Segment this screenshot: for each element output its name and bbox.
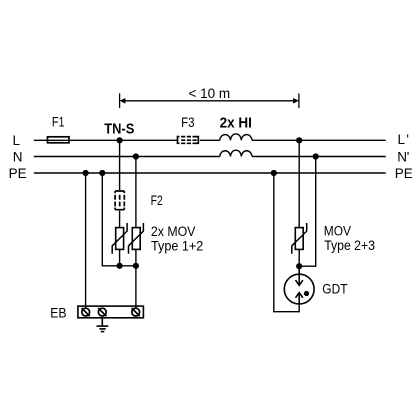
wire L bbox=[34, 139, 386, 141]
svg-text:GDT: GDT bbox=[322, 282, 347, 297]
svg-text:N': N' bbox=[397, 150, 409, 165]
svg-text:F2: F2 bbox=[151, 193, 163, 208]
ground symbol bbox=[97, 319, 109, 332]
svg-text:TN-S: TN-S bbox=[104, 120, 134, 137]
wire MOV1 bottom bbox=[119, 249, 121, 265]
varistor MOV3 (right) bbox=[292, 223, 307, 254]
varistor MOV2 bbox=[129, 223, 144, 254]
wire PE bbox=[34, 172, 386, 174]
wire N branch down bbox=[135, 157, 137, 228]
svg-text:F1: F1 bbox=[52, 115, 65, 130]
fuse F1 bbox=[48, 115, 70, 143]
node PE junction 3 bbox=[271, 170, 277, 176]
node PE junction 2 bbox=[99, 170, 105, 176]
svg-text:F3: F3 bbox=[181, 115, 194, 130]
node MOV2 bottom junction bbox=[133, 263, 139, 269]
svg-text:PE: PE bbox=[395, 166, 413, 181]
node N' junction bbox=[313, 153, 319, 159]
fuse F2 (dashed, optional) bbox=[115, 191, 124, 210]
wire L' branch down bbox=[298, 140, 300, 227]
svg-text:< 10 m: < 10 m bbox=[188, 86, 230, 101]
svg-text:MOV: MOV bbox=[324, 223, 351, 238]
wire GDT bottom to PE bbox=[274, 173, 299, 312]
wire PE to MOV bottoms bbox=[102, 173, 136, 266]
wire PE to EB bbox=[85, 173, 87, 308]
svg-text:N: N bbox=[13, 149, 23, 164]
wire N bbox=[34, 156, 386, 158]
svg-text:L: L bbox=[13, 133, 21, 148]
svg-text:Type 1+2: Type 1+2 bbox=[151, 239, 203, 254]
node TN-S (junction dot) bbox=[104, 120, 134, 143]
svg-text:L': L' bbox=[398, 132, 410, 147]
gas discharge tube GDT bbox=[284, 266, 314, 304]
wire N' branch down bbox=[302, 157, 316, 267]
node PE junction 1 bbox=[83, 170, 89, 176]
node L' junction bbox=[296, 137, 302, 143]
svg-text:EB: EB bbox=[50, 305, 66, 320]
dimension line < 10 m bbox=[120, 86, 299, 108]
wire MOV3 bottom bbox=[298, 249, 300, 266]
equipotential bonding bar EB bbox=[78, 306, 143, 318]
inductor HI (N line) bbox=[220, 150, 252, 156]
fuse F3 (dashed, optional) bbox=[178, 136, 199, 144]
node GDT top junction bbox=[296, 263, 302, 269]
wire TN-S branch down bbox=[119, 140, 121, 227]
svg-text:2x HI: 2x HI bbox=[220, 115, 252, 132]
svg-text:2x MOV: 2x MOV bbox=[151, 224, 196, 239]
svg-text:Type 2+3: Type 2+3 bbox=[324, 238, 375, 253]
wire MOV2 bottom to EB bbox=[135, 249, 137, 308]
node MOV1 bottom junction bbox=[117, 263, 123, 269]
inductor HI (L line) bbox=[220, 134, 252, 140]
svg-text:PE: PE bbox=[9, 166, 27, 181]
varistor MOV1 bbox=[112, 223, 127, 254]
node N junction (MOV2 branch) bbox=[133, 153, 139, 159]
